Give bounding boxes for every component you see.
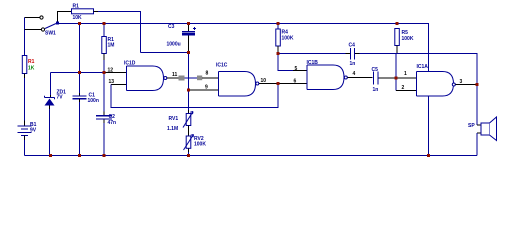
zener diode ZD1 7V — [45, 90, 67, 106]
wire C2 to bus — [103, 119, 105, 155]
node bus-C1 — [78, 154, 81, 157]
capacitor C1 100n — [73, 96, 87, 99]
pin 9 lead — [189, 89, 219, 91]
wire node to IC1A output corner — [396, 54, 477, 85]
grey connector square A — [179, 76, 185, 81]
bottom bus wire — [25, 155, 478, 157]
pin 6 lead — [278, 83, 307, 85]
svg-text:RV1: RV1 — [169, 116, 179, 122]
wire switch to R1 10K — [58, 12, 72, 22]
svg-text:1M: 1M — [108, 43, 115, 49]
resistor R1 10K — [72, 4, 94, 21]
wire C4 to R5 node — [360, 53, 397, 55]
wire left column vertical — [24, 18, 26, 56]
svg-text:IC1C: IC1C — [216, 63, 228, 69]
svg-text:11: 11 — [172, 72, 178, 78]
capacitor C4 1n — [346, 43, 360, 67]
svg-text:47n: 47n — [108, 120, 117, 126]
wire C1 branch from rail — [79, 24, 81, 96]
potentiometer RV1 1.1M — [167, 110, 193, 132]
svg-text:9: 9 — [205, 85, 208, 91]
pin 10 lead — [259, 83, 278, 85]
wire node to pin5 — [278, 54, 293, 71]
svg-text:1n: 1n — [350, 61, 356, 67]
wire output to speaker — [476, 85, 478, 126]
wire between pots — [188, 126, 190, 137]
node rail-C1 — [78, 22, 81, 25]
svg-text:1.1M: 1.1M — [167, 126, 178, 132]
svg-text:4: 4 — [353, 71, 356, 77]
resistor R4 100K — [276, 24, 294, 47]
pin 12 lead — [104, 72, 127, 74]
svg-text:100K: 100K — [194, 141, 206, 147]
resistor R1 1K — [22, 56, 34, 74]
battery B1 9V — [18, 126, 32, 136]
svg-text:1000u: 1000u — [167, 42, 181, 48]
wire zener to bus — [49, 106, 51, 156]
pin 5 lead — [293, 70, 307, 72]
grey connector square B — [197, 76, 202, 81]
node rail-R5 — [395, 22, 398, 25]
svg-text:R1: R1 — [28, 59, 35, 65]
wire R1 10K right to corner down to C3 node — [94, 12, 141, 53]
svg-text:9V: 9V — [30, 127, 37, 133]
capacitor C5 1n — [372, 67, 395, 93]
svg-text:C5: C5 — [372, 67, 379, 73]
switch SW1 — [40, 16, 59, 37]
wire C1 to bus — [79, 99, 81, 156]
node C3-bottom — [187, 51, 190, 54]
svg-text:13: 13 — [109, 79, 115, 85]
node leftwire-C1 — [78, 71, 81, 74]
node pin6-pin10 — [276, 82, 279, 85]
svg-text:100K: 100K — [282, 35, 294, 41]
wire R4 to node — [277, 46, 279, 54]
wire R1 1M to node — [103, 54, 105, 73]
node rail-R4 — [276, 22, 279, 25]
svg-text:IC1B: IC1B — [307, 60, 319, 66]
node R4-bottom — [276, 52, 279, 55]
node rail-R1M — [102, 22, 105, 25]
op gate IC1D — [124, 61, 167, 91]
wire R1 1K to battery — [24, 74, 26, 127]
node leftwire-R1M — [102, 71, 105, 74]
svg-text:100K: 100K — [402, 36, 414, 42]
wire zener branch — [50, 73, 52, 98]
wire battery to bottom bus — [24, 136, 26, 156]
pin 2 lead — [396, 90, 417, 92]
svg-text:SW1: SW1 — [45, 31, 56, 37]
svg-text:2: 2 — [402, 85, 405, 91]
svg-text:3: 3 — [460, 79, 463, 85]
capacitor C2 47n — [96, 116, 112, 119]
svg-text:8: 8 — [206, 71, 209, 77]
node pin9 — [187, 89, 190, 92]
svg-text:6: 6 — [294, 79, 297, 85]
svg-text:7V: 7V — [57, 95, 64, 101]
op gate IC1C — [216, 63, 259, 97]
pin 8 lead — [202, 77, 218, 79]
svg-text:IC1D: IC1D — [124, 61, 136, 67]
pin 11 lead — [167, 77, 179, 79]
svg-text:R1: R1 — [73, 4, 80, 10]
op gate IC1A — [417, 64, 456, 96]
wire C3 bottom node — [141, 53, 189, 111]
pin 3 lead — [456, 84, 477, 86]
wire node down to C2 — [103, 73, 105, 116]
svg-text:IC1A: IC1A — [417, 64, 429, 70]
svg-text:C4: C4 — [349, 43, 356, 49]
wire bus to speaker — [476, 133, 478, 156]
power pin wire IC1A — [428, 96, 430, 156]
potentiometer RV2 100K — [184, 135, 207, 151]
pin 13 lead — [111, 84, 127, 86]
pin 4 lead — [348, 77, 373, 79]
node C5-R5 — [394, 77, 397, 80]
capacitor C3 1000u — [167, 24, 197, 53]
svg-text:10K: 10K — [73, 15, 83, 21]
wire between squares — [185, 77, 198, 79]
svg-text:SP: SP — [468, 123, 475, 129]
resistor R1 1M — [102, 24, 115, 54]
resistor R5 100K — [395, 29, 414, 54]
top rail wire — [59, 24, 429, 72]
node bus-IC1A-gnd — [427, 154, 430, 157]
svg-text:C3: C3 — [168, 24, 175, 30]
op gate IC1B — [307, 60, 348, 90]
svg-text:1n: 1n — [373, 87, 379, 93]
node bus-C2 — [102, 154, 105, 157]
svg-text:1: 1 — [404, 71, 407, 77]
wire right node vertical — [395, 54, 397, 91]
wire R4 node to C4 — [278, 53, 346, 55]
wire from switch contact 2 — [25, 29, 42, 31]
node bus-zener — [49, 154, 52, 157]
svg-text:12: 12 — [108, 68, 114, 74]
wire top-left from switch contact 1 — [25, 17, 40, 19]
svg-text:100n: 100n — [88, 98, 99, 104]
svg-text:1K: 1K — [28, 66, 35, 72]
wire pin13 feedback loop — [111, 84, 278, 108]
node pin3-out — [476, 83, 479, 86]
wire left mid horizontal — [51, 72, 105, 74]
svg-text:5: 5 — [295, 66, 298, 72]
wire RV2 to bus — [188, 148, 190, 155]
svg-text:10: 10 — [261, 78, 267, 84]
node bus-RV2 — [187, 154, 190, 157]
pin 1 lead — [396, 77, 417, 79]
node rail-C3 — [187, 22, 190, 25]
speaker SP — [468, 117, 497, 141]
